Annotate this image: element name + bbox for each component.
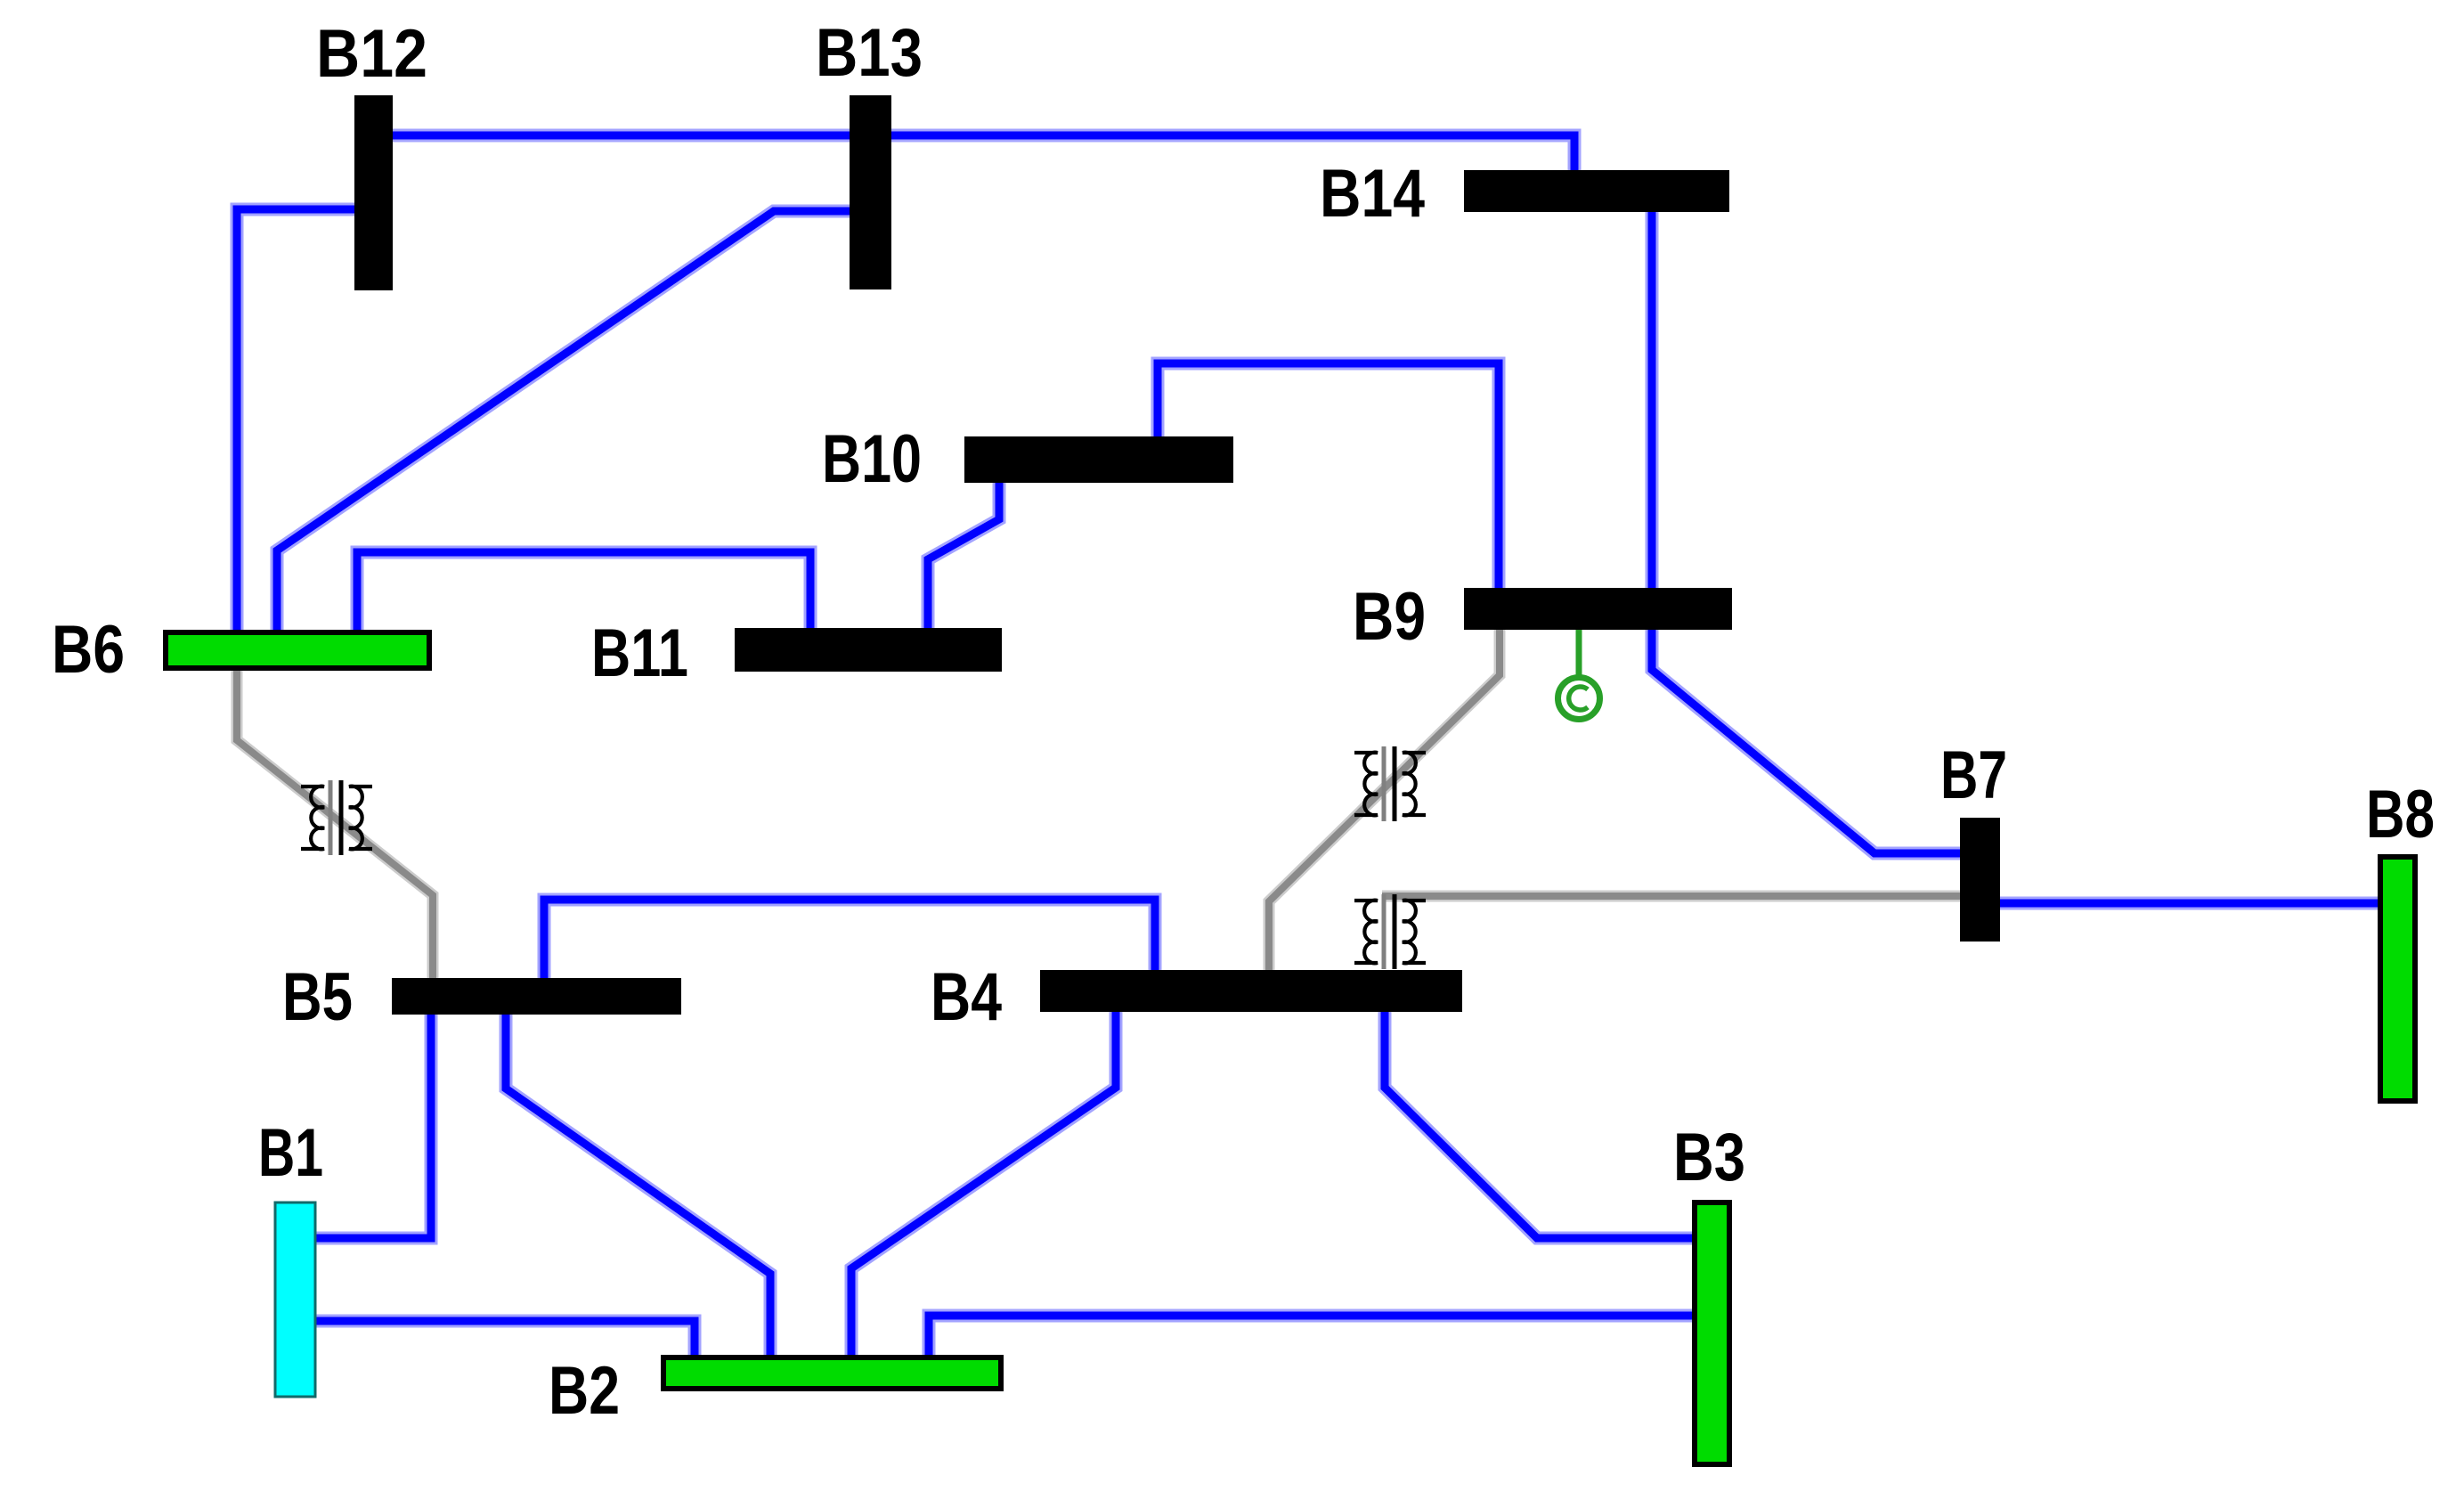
svg-text:B2: B2 [549, 1353, 620, 1429]
svg-text:B5: B5 [282, 959, 353, 1035]
svg-text:B9: B9 [1353, 579, 1426, 655]
svg-text:B13: B13 [816, 15, 923, 91]
svg-text:B12: B12 [316, 16, 427, 92]
svg-text:B10: B10 [822, 421, 922, 497]
svg-text:B6: B6 [52, 612, 125, 688]
svg-text:B11: B11 [591, 615, 688, 691]
svg-text:B8: B8 [2366, 777, 2435, 852]
svg-text:B7: B7 [1940, 738, 2007, 813]
svg-text:B4: B4 [931, 959, 1002, 1035]
svg-text:B1: B1 [258, 1115, 323, 1191]
svg-text:B3: B3 [1673, 1120, 1745, 1195]
svg-text:B14: B14 [1320, 156, 1425, 232]
